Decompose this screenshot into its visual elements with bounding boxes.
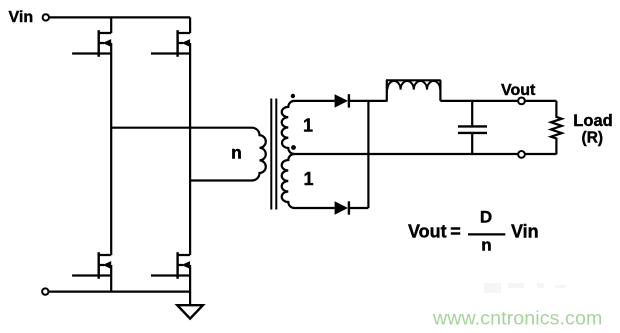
svg-text:(R): (R): [582, 129, 604, 146]
svg-text:Vin: Vin: [511, 222, 539, 242]
svg-text:=: =: [450, 222, 461, 242]
svg-text:n: n: [231, 143, 242, 163]
svg-text:n: n: [481, 236, 491, 255]
svg-text:1: 1: [303, 169, 313, 189]
svg-text:D: D: [480, 208, 492, 227]
svg-text:www.cntronics.com: www.cntronics.com: [432, 307, 602, 329]
svg-text:Vout: Vout: [501, 82, 536, 99]
svg-text:Load: Load: [573, 112, 612, 130]
svg-text:Vin: Vin: [9, 9, 34, 26]
svg-text:Vout: Vout: [408, 222, 447, 242]
svg-text:1: 1: [303, 116, 313, 136]
